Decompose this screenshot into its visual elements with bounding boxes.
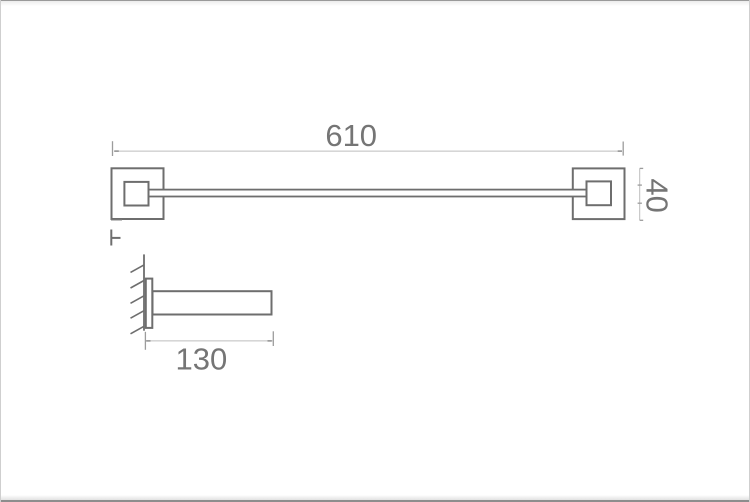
bracket arm (side view) [153,291,272,314]
dimension 130 left extension tick [144,332,146,350]
dimension line 610 [114,150,622,152]
right bracket inner square [587,181,612,205]
right bracket outer square [573,168,625,219]
dimension line 40 (vertical) [639,168,641,220]
wall hatch strokes [131,265,145,334]
orientation marker (tee symbol) [111,230,120,246]
dimension 40 top tick [640,167,644,169]
dimension 130 right extension tick [272,331,274,346]
left bracket bottom-left edge notch artifact [111,219,122,221]
dimension 610 left extension tick [112,141,114,156]
dimension 40 upper cross tick [638,184,642,186]
left bracket inner square [124,182,148,206]
towel bar rail [148,190,588,197]
wall line (side view) [143,254,145,330]
dimension 610 right extension tick [622,142,624,156]
dimension 610 left arrow dash [114,150,119,152]
dimension 130 right arrow dash [268,340,272,342]
wall mounting plate (side view) [146,279,153,328]
svg-text:130: 130 [176,341,228,376]
dimension 40 bottom tick [640,219,644,221]
dimension 610 right arrow dash [618,150,622,152]
dimension line 130 [146,340,273,342]
svg-text:610: 610 [325,118,377,153]
svg-text:40: 40 [640,178,675,212]
dimension 40 lower cross tick [638,202,642,204]
left bracket outer square [112,168,164,219]
dimension 130 left arrow dash [146,340,150,342]
